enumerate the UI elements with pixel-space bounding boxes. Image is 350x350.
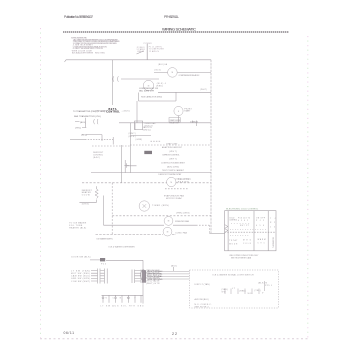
svg-text:POWER: POWER: [144, 43, 153, 45]
svg-text:EVAP LIMIT: EVAP LIMIT: [167, 143, 179, 146]
svg-text:P25: P25: [101, 264, 107, 266]
svg-text:(TAN): (TAN): [222, 288, 228, 291]
svg-text:THERMISTOR: THERMISTOR: [273, 236, 275, 248]
svg-text:(BLK) (ORG): (BLK) (ORG): [167, 166, 179, 168]
svg-text:WIRING SCHEMATIC: WIRING SCHEMATIC: [162, 26, 196, 31]
svg-text:DISP LT (TAN): DISP LT (TAN): [195, 283, 210, 286]
svg-text:FREEZER FAN: FREEZER FAN: [175, 220, 190, 223]
svg-text:VAC 60HZ 1PH: VAC 60HZ 1PH: [139, 89, 155, 92]
svg-text:GRN GROUND: GRN GROUND: [148, 279, 164, 281]
svg-text:AUX SW (BLK): AUX SW (BLK): [195, 298, 209, 301]
svg-text:DEFROST CONTROL: DEFROST CONTROL: [163, 155, 180, 157]
svg-text:LT SW AUG SOL HTR GN: LT SW AUG SOL HTR GND: [101, 305, 145, 308]
svg-text:SEE NOTE 4: SEE NOTE 4: [195, 307, 210, 309]
svg-text:4 5 6 2: 4 5 6 2: [238, 220, 248, 222]
svg-text:(PNK) (ORG): (PNK) (ORG): [176, 213, 189, 215]
svg-text:(GRN): (GRN): [136, 139, 143, 141]
svg-text:5 9 1: 5 9 1: [258, 243, 265, 245]
svg-text:TSTAT: TSTAT: [229, 239, 238, 242]
svg-text:+ (BLK): + (BLK): [122, 110, 130, 112]
svg-text:COLD: COLD: [243, 243, 252, 245]
svg-text:N.O. COM N.C.: N.O. COM N.C.: [195, 304, 212, 306]
svg-text:MED: MED: [243, 240, 252, 242]
svg-text:(YEL): (YEL): [255, 290, 261, 292]
svg-text:(BLK): (BLK): [155, 70, 162, 72]
svg-text:FAN TRANSMITTER (YEL): FAN TRANSMITTER (YEL): [74, 115, 101, 118]
svg-text:BLK 120VAC: BLK 120VAC: [148, 270, 164, 273]
svg-text:[PNK] [GRN]: [PNK] [GRN]: [96, 111, 108, 113]
svg-text:RUN CAPACITOR (RED): RUN CAPACITOR (RED): [141, 96, 162, 99]
svg-text:1 5: 1 5: [270, 227, 275, 229]
svg-text:P J 2: P J 2: [256, 220, 264, 222]
svg-text:ICE MAKER (WHT): ICE MAKER (WHT): [97, 237, 113, 240]
svg-text:DEFROST THERMOSTAT: DEFROST THERMOSTAT: [158, 173, 182, 176]
svg-text:(WHT): (WHT): [169, 151, 177, 153]
svg-text:SEE TECH SHEET DATA: SEE TECH SHEET DATA: [231, 256, 252, 259]
svg-text:(YEL): (YEL): [75, 127, 81, 129]
svg-text:MODE: MODE: [229, 243, 238, 245]
svg-text:MOTOR 115VAC: MOTOR 115VAC: [166, 197, 183, 200]
svg-text:OVERLOAD: OVERLOAD: [145, 122, 157, 125]
svg-text:500W: 500W: [82, 195, 90, 197]
svg-text:PFHB2911L: PFHB2911L: [164, 15, 179, 19]
svg-text:BLK BLACK WHT WHITE: BLK BLACK WHT WHITE: [72, 51, 94, 54]
svg-text:4 5 6: 4 5 6: [256, 225, 264, 227]
svg-text:COND FAN: COND FAN: [175, 232, 188, 235]
svg-text:WHT NEUTRAL: WHT NEUTRAL: [148, 273, 164, 276]
svg-text:ELECTRONIC COLD CONTROL: ELECTRONIC COLD CONTROL: [226, 208, 259, 210]
svg-text:CAM SW (BLU): CAM SW (BLU): [71, 275, 90, 278]
svg-text:RED RED: RED RED: [95, 52, 106, 54]
svg-text:ICE & WATER DISPENSER: ICE & WATER DISPENSER: [109, 246, 136, 249]
svg-text:(OVERLD): (OVERLD): [190, 122, 198, 124]
svg-text:SOL: SOL: [248, 293, 254, 295]
svg-text:ON OFF: ON OFF: [256, 217, 266, 219]
svg-text:ICE & WATER SIGNAL LIGHT SWITC: ICE & WATER SIGNAL LIGHT SWITCH: [213, 274, 255, 277]
svg-text:P25 J: P25 J: [265, 285, 272, 287]
svg-text:(WHT): (WHT): [129, 133, 136, 135]
svg-text:CONTROL HOUSING BRKT: CONTROL HOUSING BRKT: [161, 162, 186, 164]
svg-text:(BLK) 4: (BLK) 4: [157, 83, 166, 85]
svg-text:LT SW (TAN): LT SW (TAN): [71, 269, 90, 272]
svg-text:TIMER (BRN): TIMER (BRN): [152, 205, 169, 207]
svg-text:(ADC): (ADC): [93, 156, 100, 159]
svg-text:60HZ (C): 60HZ (C): [143, 129, 151, 131]
svg-text:RELAY OVL: RELAY OVL: [170, 121, 179, 124]
svg-text:EVAPORATOR FAN: EVAPORATOR FAN: [164, 194, 185, 197]
svg-text:WARM: WARM: [258, 238, 267, 241]
svg-text:(BLK): (BLK): [171, 265, 177, 267]
svg-text:22: 22: [172, 332, 177, 336]
svg-text:HEATER (BLK): HEATER (BLK): [69, 227, 86, 230]
svg-text:HEATER: HEATER: [178, 181, 190, 184]
svg-text:CONTROL: CONTROL: [106, 111, 120, 114]
svg-text:COM SW (WHT): COM SW (WHT): [71, 281, 90, 283]
svg-text:(ORG) (PNK): (ORG) (PNK): [175, 179, 190, 181]
svg-text:DOOR SW (BLK): DOOR SW (BLK): [71, 256, 90, 258]
svg-text:06/11: 06/11: [64, 331, 75, 335]
svg-text:ORG SIGNAL: ORG SIGNAL: [148, 275, 164, 278]
svg-text:P13 J13 T5: P13 J13 T5: [238, 217, 250, 219]
svg-text:12 AWG N: 12 AWG N: [149, 50, 160, 53]
svg-text:ADAPTIVE DEFROST: ADAPTIVE DEFROST: [162, 146, 183, 149]
svg-text:(WHT): (WHT): [169, 159, 177, 161]
svg-text:TEST POINTS CABINET: TEST POINTS CABINET: [162, 169, 185, 172]
svg-text:(BLK) N: (BLK) N: [258, 282, 268, 284]
svg-text:Publication No. 5995594107: Publication No. 5995594107: [64, 15, 93, 19]
svg-text:SET PT: SET PT: [240, 225, 250, 227]
svg-text:(WHT): (WHT): [200, 89, 207, 91]
svg-text:(RED): (RED): [81, 135, 87, 137]
svg-text:(BLU): (BLU): [80, 122, 86, 124]
svg-text:COMPRESSOR RELAY 8C: COMPRESSOR RELAY 8C: [179, 74, 201, 77]
svg-text:(BLK): (BLK): [129, 136, 136, 138]
svg-text:(ORG): (ORG): [82, 204, 89, 206]
svg-text:START: START: [184, 110, 191, 113]
svg-text:LINE IN: LINE IN: [137, 51, 145, 53]
svg-text:R 2: R 2: [270, 222, 275, 224]
svg-text:(WHT) HTR: (WHT) HTR: [146, 283, 160, 285]
svg-text:CONTROL: CONTROL: [229, 220, 237, 222]
svg-text:(BLK) 6A: (BLK) 6A: [158, 63, 168, 66]
